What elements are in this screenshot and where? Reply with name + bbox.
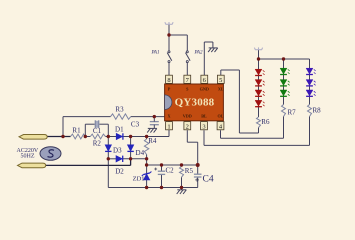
svg-text:2: 2 <box>186 123 189 130</box>
wire switch branch right <box>169 34 187 36</box>
op-amp U1 QY3088 body <box>165 84 224 121</box>
ground chassis under R5 <box>177 188 187 195</box>
wire bridge mid rail upper <box>130 137 132 146</box>
LED string2 green LED2 <box>280 80 290 86</box>
resistor R2 <box>90 134 105 139</box>
resistor R6 <box>257 117 261 128</box>
wire string3 rail lower <box>309 117 311 146</box>
wire pin3 to string3 <box>204 144 310 146</box>
wire bridge left rail lower <box>107 151 109 158</box>
diode D3 <box>105 145 111 152</box>
wire string3 rail <box>309 59 311 105</box>
wire C1 loop left stub <box>84 124 86 136</box>
wire R2 to node B to D1 <box>106 136 117 138</box>
svg-text:50HZ: 50HZ <box>21 154 35 160</box>
pin 8 <box>166 75 173 84</box>
svg-text:OL: OL <box>217 114 223 119</box>
wire R4 top lead <box>146 137 148 140</box>
capacitor C3 lead <box>153 117 155 129</box>
wire LED top bus <box>259 58 310 60</box>
pin name labels top <box>168 87 224 92</box>
LED string2 green LED3 <box>280 90 290 96</box>
wire pin4 to string2 <box>221 137 284 139</box>
wire left rail down to bottom bus <box>107 159 109 188</box>
svg-text:R2: R2 <box>93 139 102 147</box>
svg-text:C2: C2 <box>166 167 175 175</box>
svg-text:R8: R8 <box>313 106 322 114</box>
svg-text:PA2: PA2 <box>194 51 203 56</box>
wire R4 rail to ZD1 <box>146 155 148 174</box>
wire bridge mid rail lower <box>130 151 132 158</box>
LED string1 red LED1 <box>255 69 265 75</box>
svg-text:R7: R7 <box>288 108 297 116</box>
resistor R1 <box>71 134 86 139</box>
svg-text:XL: XL <box>218 87 224 92</box>
power bar LED strings <box>254 47 262 49</box>
wire string2 rail <box>283 59 285 105</box>
svg-text:R6: R6 <box>261 118 270 126</box>
resistor R3 <box>111 114 131 119</box>
wire node D to D2 <box>108 158 116 160</box>
C4 plus sign <box>195 178 199 182</box>
wire pin5 to R6 bottom <box>239 132 258 134</box>
wire C1 loop top left <box>85 123 94 125</box>
wire live from plug to R1 <box>47 136 71 138</box>
svg-text:C4: C4 <box>203 174 214 184</box>
wire pin4 stub down <box>220 130 222 138</box>
AC source <box>40 147 61 161</box>
wire PA1 to pin8 <box>168 63 170 75</box>
capacitor C3 plates <box>150 121 159 123</box>
LED string3 blue LED1 <box>306 68 316 74</box>
zener ZD1 <box>142 172 152 181</box>
pin 4 <box>217 122 224 131</box>
wire C4 bottom lead <box>197 177 199 188</box>
wire string1 rail <box>258 59 260 117</box>
ground chassis under C3 <box>147 128 157 132</box>
wire node A to R2 <box>85 136 90 138</box>
pin 6 <box>201 75 208 84</box>
diode D4 <box>127 145 133 152</box>
wire D2 to R4 rail <box>123 158 147 160</box>
power bar top <box>165 22 173 24</box>
wire R3 right to C3 node to pin1 leg <box>131 116 169 118</box>
svg-text:5: 5 <box>219 77 222 84</box>
wire neutral from plug <box>46 164 131 166</box>
svg-text:VDD: VDD <box>183 114 192 119</box>
wire D1 cathode to node C to R4 top to pin1 corner <box>123 136 169 138</box>
wire pin2 right <box>187 141 197 143</box>
node junction dots <box>61 33 285 189</box>
svg-text:D3: D3 <box>113 146 122 154</box>
wire bridge left rail upper <box>107 137 109 146</box>
svg-text:1: 1 <box>167 123 170 130</box>
pin name labels bottom <box>167 114 223 119</box>
LED string2 green LED1 <box>280 68 290 74</box>
wire to PA2 top <box>186 35 188 51</box>
switch PA2 <box>186 51 191 63</box>
svg-text:R5: R5 <box>185 167 194 175</box>
resistor R7 <box>282 105 286 117</box>
wire bottom bus <box>108 187 197 189</box>
wire neutral up to node E <box>130 159 132 166</box>
wire pin6 right to ground <box>204 41 213 43</box>
LED string1 red LED2 <box>255 80 265 86</box>
switch PA1 <box>167 51 172 63</box>
ground chassis at pin6 <box>208 48 218 52</box>
wire pin5 right <box>221 69 240 71</box>
capacitor C1 plates <box>95 121 98 128</box>
LED string3 blue LED3 <box>306 90 316 96</box>
capacitor C2 plates <box>158 170 165 172</box>
svg-text:3: 3 <box>202 123 205 130</box>
pin 5 <box>217 75 224 84</box>
LED string3 blue LED2 <box>306 80 316 86</box>
wire ZD1 to bottom bus <box>146 180 148 188</box>
svg-text:8: 8 <box>167 77 170 84</box>
svg-text:R4: R4 <box>148 137 157 145</box>
wire R3 branch up <box>62 117 64 137</box>
plug prong bottom <box>18 163 46 168</box>
diode D2 <box>116 156 123 162</box>
LED string1 red LED3 <box>255 90 265 96</box>
pin 2 <box>184 122 191 131</box>
wire LED power stem <box>258 50 260 59</box>
svg-text:R1: R1 <box>72 126 81 134</box>
svg-text:P: P <box>168 87 171 92</box>
wire C2 bottom lead <box>161 174 163 187</box>
wire C1 loop top right <box>99 123 108 125</box>
svg-text:C1: C1 <box>93 127 102 135</box>
wire pin5 stub up <box>220 70 222 75</box>
svg-text:C3: C3 <box>131 121 140 129</box>
svg-text:D4: D4 <box>136 149 145 157</box>
diode D1 <box>116 133 123 139</box>
pin 3 <box>201 122 208 131</box>
wire C1 loop right stub <box>107 124 109 136</box>
capacitor C4 plates <box>194 173 202 175</box>
wire to R3 left <box>63 116 111 118</box>
svg-text:BL: BL <box>201 114 207 119</box>
svg-text:QY3088: QY3088 <box>175 97 215 109</box>
wire ground stub <box>212 42 214 48</box>
svg-text:ZD1: ZD1 <box>133 175 145 182</box>
svg-text:R3: R3 <box>115 105 124 113</box>
wire pin3 stub down <box>203 130 205 145</box>
wire pin2 stub down <box>186 130 188 142</box>
wire pin1 vertical / R3 right leg <box>168 117 170 137</box>
wire string2 rail lower <box>283 117 285 139</box>
resistor R5 <box>180 167 184 178</box>
wire pin5 down <box>238 70 240 133</box>
wire pin6 stub up <box>203 42 205 75</box>
LED string1 red LED4 <box>255 100 265 106</box>
wire C4 top lead <box>197 165 199 174</box>
svg-text:D2: D2 <box>115 168 124 176</box>
wire PA2 to pin7 <box>186 63 188 75</box>
resistor R4 <box>144 139 148 155</box>
pin 7 <box>184 75 191 84</box>
svg-text:GND: GND <box>200 87 209 92</box>
wire string1 rail lower <box>258 128 260 134</box>
wire top power stem <box>168 24 170 35</box>
resistor R8 <box>308 105 312 117</box>
svg-text:D1: D1 <box>115 126 124 134</box>
wire pin2 down to mid bus <box>197 142 199 165</box>
C2 plus sign <box>154 168 157 171</box>
wire to PA1 top <box>168 35 170 51</box>
svg-text:X: X <box>167 114 170 119</box>
pin 1 <box>166 122 173 131</box>
svg-text:PA1: PA1 <box>151 51 160 56</box>
wire mid bus <box>147 164 198 166</box>
wire R5 top lead <box>181 165 183 167</box>
wire C2 top lead <box>161 165 163 171</box>
plug prong top <box>19 135 47 140</box>
wire R5 bottom lead <box>181 177 183 187</box>
